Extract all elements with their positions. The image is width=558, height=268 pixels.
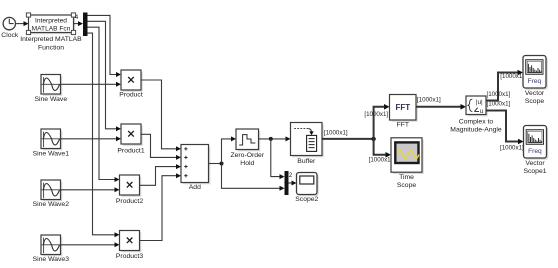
junction node on wide wire [371,137,375,141]
block U2 Complex to Magnitude-Angle [450,96,502,133]
clock block Clock [1,17,19,39]
wire demux out2 to Product1 in1 [88,21,122,131]
block Sine Wave3 [33,235,70,263]
svg-text:Sine Wave1: Sine Wave1 [33,150,70,157]
wire Zero-Order Hold to Buffer [259,136,291,141]
wire junction down to Time Scope (wide) [374,139,391,158]
svg-text:Sine Wave2: Sine Wave2 [33,201,70,208]
wire junction up to Zero-Order Hold [222,136,237,163]
wire Sine Wave to Product in2 [61,82,122,87]
svg-text:Product1: Product1 [117,147,144,154]
svg-text:Freq: Freq [528,78,542,85]
block Add [181,145,210,192]
svg-text:[1000x1]: [1000x1] [487,91,511,98]
svg-text:Scope1: Scope1 [523,168,546,175]
svg-text:[1000x1]: [1000x1] [364,111,388,118]
wire Product to Add in1 [141,80,181,151]
svg-text:|u|: |u| [476,99,483,106]
wire FFT to Complex to Magnitude-Angle (wide) [416,104,466,110]
block Product3 [116,231,143,260]
junction node after Zero-Order Hold [269,137,273,141]
block U1 Interpreted MATLAB Function (selected) [20,13,82,52]
wire junction down to Mux in2 [222,164,285,191]
block FFT [390,95,418,129]
svg-text:[1000x1]: [1000x1] [500,145,524,152]
wire Mux to Scope2 [289,181,297,186]
svg-text:[1000x1]: [1000x1] [487,100,511,107]
wire Clock to Interpreted MATLAB Function [16,21,29,26]
svg-text:MATLAB Fcn: MATLAB Fcn [32,25,71,32]
svg-text:Complex to: Complex to [459,118,494,125]
block Product1 [117,124,144,154]
svg-text:Interpreted MATLAB: Interpreted MATLAB [20,36,82,43]
mux (2 inputs) [285,171,289,195]
svg-text:Sine Wave3: Sine Wave3 [33,256,70,263]
block Sine Wave2 [33,180,70,208]
wire Complex to Magnitude-Angle out2 to Vector Scope1 (wide) [486,111,524,145]
wire Product1 to Add in2 [141,134,181,160]
wire Add out to junction [209,163,222,165]
svg-text:Hold: Hold [240,160,254,167]
svg-text:Product2: Product2 [116,198,143,205]
wire Product3 to Add in4 [140,173,182,240]
svg-text:[1000x1]: [1000x1] [500,73,524,80]
block Vector Scope1 [523,126,548,176]
wire Complex to Magnitude-Angle out1 to Vector Scope (wide) [486,70,523,101]
wire Interpreted MATLAB Function to Demux [74,21,84,26]
svg-text:Vector: Vector [525,90,545,97]
svg-text:Clock: Clock [1,32,19,39]
svg-text:Time: Time [399,174,414,181]
svg-text:[1000x1]: [1000x1] [417,97,441,104]
svg-text:Magnitude-Angle: Magnitude-Angle [450,126,502,133]
wire junction up to FFT (wide) [374,104,390,139]
block Time Scope [391,138,424,189]
svg-text:Scope2: Scope2 [295,196,318,203]
block Sine Wave [34,75,67,104]
wire Buffer out (wide) to junction [322,138,374,140]
wire demux out1 to Product in1 [88,15,122,77]
svg-text:Sine Wave: Sine Wave [34,96,67,103]
demux (4 outputs) [83,13,88,37]
svg-text:2: 2 [289,172,293,179]
wire Sine Wave3 to Product3 in2 [61,242,120,247]
svg-text:Scope: Scope [397,182,416,189]
block Vector Scope [523,56,548,106]
junction node at Add output [220,162,224,166]
svg-text:Product3: Product3 [116,253,143,260]
wire Sine Wave1 to Product1 in2 [61,136,122,141]
svg-text:4: 4 [75,14,79,21]
block Scope2 [295,173,319,203]
wire demux out3 to Product2 in1 [88,27,120,182]
block Sine Wave1 [33,129,70,157]
svg-text:Function: Function [38,45,64,52]
wire demux out4 to Product3 in1 [88,33,120,237]
svg-text:Buffer: Buffer [297,158,316,165]
svg-text:u: u [480,108,484,115]
wire junction down to Mux in1 [271,139,285,179]
svg-text:Freq: Freq [528,148,542,155]
svg-text:Interpreted: Interpreted [35,18,67,25]
svg-text:[1000x1]: [1000x1] [324,129,348,136]
svg-text:Vector: Vector [525,160,545,167]
block Product [119,70,143,99]
svg-text:Add: Add [189,184,201,191]
wire Sine Wave2 to Product2 in2 [61,187,120,192]
block Buffer [291,123,324,165]
svg-text:[1000x1]: [1000x1] [369,157,393,164]
svg-text:FFT: FFT [397,122,409,129]
svg-text:Product: Product [119,92,143,99]
svg-text:Scope: Scope [525,98,544,105]
wire Product2 to Add in3 [140,164,182,185]
svg-text:Zero-Order: Zero-Order [230,152,264,159]
block Product2 [116,175,143,205]
block Zero-Order Hold [230,129,264,167]
svg-text:FFT: FFT [395,103,410,112]
